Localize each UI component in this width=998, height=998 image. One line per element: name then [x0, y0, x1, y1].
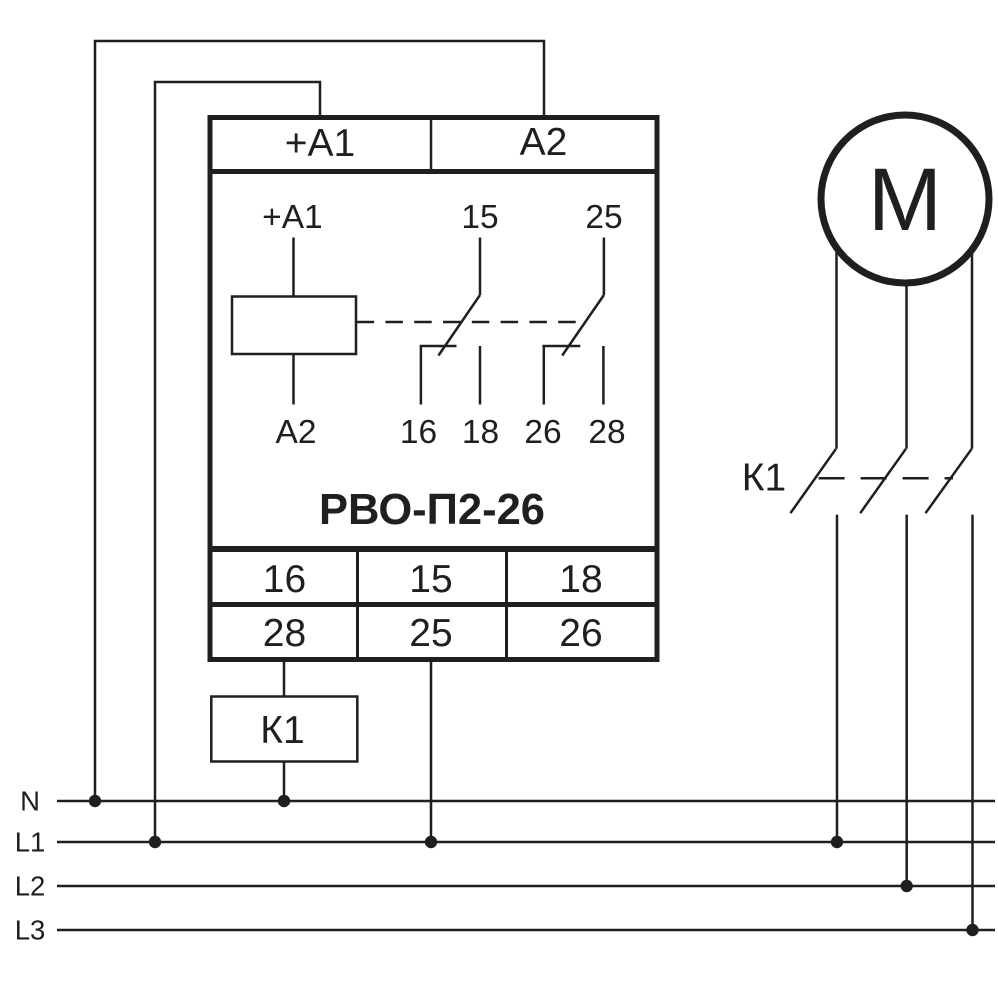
contactor K1 linkage dashed line [819, 477, 953, 480]
svg-text:28: 28 [588, 414, 625, 451]
contact blade 25 [562, 295, 604, 356]
motor M1 circle [821, 115, 989, 283]
wire pin 28 [602, 346, 605, 405]
wire pole 3 to L3 bus [971, 515, 974, 930]
svg-text:РВО-П2-26: РВО-П2-26 [319, 486, 545, 534]
svg-text:М: М [868, 149, 942, 249]
junction A2 wire on N [89, 795, 101, 807]
wire from N bus up and over to A2 terminal [95, 41, 544, 801]
svg-text:+А1: +А1 [285, 122, 355, 165]
motor phase wire 3 [971, 199, 974, 449]
contactor K1 blade pole 1 [790, 449, 836, 513]
terminal table row divider [210, 602, 657, 607]
svg-text:26: 26 [559, 612, 602, 655]
junction pole 1 on L1 [831, 836, 843, 848]
svg-text:N: N [20, 786, 40, 817]
svg-text:25: 25 [585, 199, 622, 236]
junction 25 wire on L1 [425, 836, 437, 848]
svg-text:L3: L3 [15, 914, 46, 945]
svg-text:L1: L1 [15, 826, 46, 857]
wire terminal 25 to L1 bus [430, 660, 433, 842]
svg-text:16: 16 [263, 558, 306, 601]
L2 bus line [57, 885, 995, 888]
svg-text:К1: К1 [260, 709, 304, 752]
NC seat bar pin 26 [542, 345, 580, 348]
relay top terminal strip bottom line [210, 169, 657, 174]
svg-text:26: 26 [524, 414, 561, 451]
wire from L1 bus up and over to +A1 terminal [155, 82, 320, 842]
contact blade 15 [439, 295, 481, 356]
relay U1 outer box [210, 118, 657, 660]
terminal table column divider left [356, 552, 359, 657]
wire coil to A2 [292, 354, 295, 405]
svg-text:15: 15 [461, 199, 498, 236]
N bus line [57, 800, 995, 803]
L3 bus line [57, 929, 995, 932]
contactor K1 blade pole 2 [860, 449, 906, 513]
junction pole 3 on L3 [966, 924, 978, 936]
junction +A1 wire on L1 [149, 836, 161, 848]
svg-text:К1: К1 [742, 457, 786, 500]
strip divider between +A1 and A2 cells [430, 119, 433, 170]
wire pin 16 [420, 346, 423, 405]
contactor K1 blade pole 3 [926, 449, 972, 513]
svg-text:А2: А2 [520, 121, 568, 164]
contactor coil K1 box [211, 697, 357, 762]
L1 bus line [57, 841, 995, 844]
wire +A1 to coil [292, 238, 295, 297]
svg-text:L2: L2 [15, 870, 46, 901]
svg-text:А2: А2 [276, 414, 317, 451]
wire pole 2 to L2 bus [905, 515, 908, 886]
junction pole 2 on L2 [901, 880, 913, 892]
wire pole 1 to L1 bus [836, 515, 839, 842]
wire terminal 28 to contactor coil K1 [283, 660, 286, 697]
wire pin 18 [479, 346, 482, 405]
wire pin 26 [543, 346, 546, 405]
terminal table top line [210, 546, 657, 552]
motor phase wire 2 [905, 199, 908, 449]
svg-text:15: 15 [409, 558, 452, 601]
svg-text:28: 28 [263, 612, 306, 655]
mechanical linkage dashed line (coil to contacts) [357, 321, 584, 324]
svg-text:+А1: +А1 [262, 199, 323, 236]
relay coil K [232, 297, 356, 355]
motor phase wire 1 [835, 199, 838, 449]
wire pin 15 [479, 238, 482, 296]
svg-text:25: 25 [409, 612, 452, 655]
wire pin 25 [603, 238, 606, 296]
svg-text:18: 18 [462, 414, 499, 451]
junction K1 coil on N [278, 795, 290, 807]
NC seat bar pin 16 [420, 345, 457, 348]
terminal table column divider right [505, 552, 508, 657]
svg-text:16: 16 [400, 414, 437, 451]
wire K1 coil to N bus [283, 762, 286, 802]
svg-text:18: 18 [559, 558, 602, 601]
